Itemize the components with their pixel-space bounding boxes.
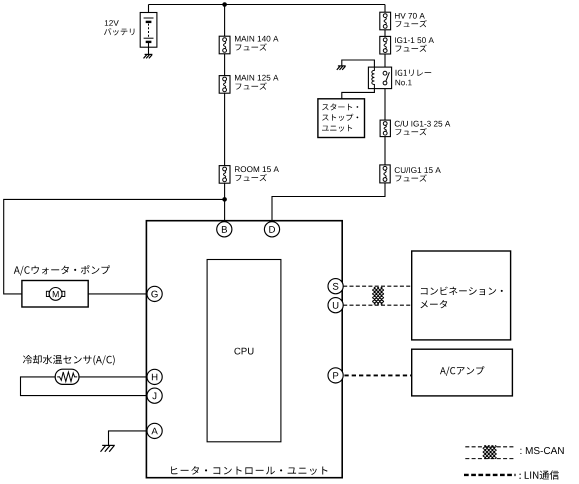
fuse C/U IG1-3 25 A [380, 120, 390, 137]
wire battery positive lead [148, 5, 150, 19]
fuse MAIN 125 A [219, 76, 230, 94]
connector J [147, 388, 162, 403]
label A/C amplifier [440, 366, 484, 376]
label CPU [234, 348, 253, 355]
fuse ROOM 15 A [219, 166, 230, 184]
wire MAIN 140 A fuse to MAIN 125 A fuse [224, 54, 226, 76]
legend label MS-CAN [520, 447, 563, 454]
battery 12V [140, 13, 157, 48]
wire MAIN 125 A fuse to ROOM fuse [224, 93, 226, 165]
wire top bus down to MAIN 140 A fuse [224, 5, 226, 37]
node top bus junction to MAIN fuses [222, 2, 227, 7]
wire pump to connector G [63, 293, 147, 295]
connector U [328, 298, 343, 313]
start-stop unit box [318, 99, 365, 138]
motor A/C water pump [22, 281, 88, 308]
wire C/U IG1-3 fuse to CU/IG1 fuse [384, 137, 386, 165]
CPU box [207, 260, 281, 442]
wire IG1-1 fuse to IG1 relay [384, 54, 386, 71]
label MAIN 125 A fuse [235, 75, 279, 81]
ground connector A wire [102, 444, 115, 446]
legend twisted pair symbol [483, 445, 486, 458]
dashed LIN line P to A/C amp [344, 374, 411, 376]
label start-stop unit [322, 104, 358, 111]
dashed MS-CAN line S to combination meter [343, 285, 412, 287]
fuse HV 70 A [380, 12, 391, 30]
legend MS-CAN dashed line upper [465, 446, 515, 448]
label combination meter [421, 287, 503, 296]
fuse CU/IG1 15 A [380, 165, 390, 183]
label CU/IG1 15 A fuse [395, 167, 441, 173]
label MAIN 140 A fuse [235, 36, 279, 42]
combination meter box [412, 251, 511, 340]
label HV 70 A fuse [395, 13, 425, 19]
thermistor coolant temperature sensor [55, 369, 79, 384]
connector G [147, 286, 162, 301]
connector A [147, 423, 162, 438]
wire ROOM fuse to connector B [224, 183, 226, 222]
fuse MAIN 140 A [219, 36, 230, 54]
label IG1-1 50 A fuse [395, 37, 434, 43]
wire CU/IG1 fuse to connector D [272, 183, 385, 222]
label coolant temperature sensor (A/C) [23, 355, 115, 365]
wire relay coil to start-stop unit [342, 89, 375, 99]
label C/U IG1-3 25 A fuse [395, 121, 451, 127]
connector H [147, 369, 162, 384]
node junction below ROOM fuse [222, 197, 227, 202]
wire thermistor loop to connector J [21, 377, 148, 396]
connector P [328, 368, 343, 383]
legend MS-CAN dashed line lower [465, 458, 515, 460]
legend LIN dashed line [464, 474, 516, 476]
A/C amplifier box [412, 349, 513, 396]
legend label LIN communication [519, 470, 559, 479]
ground below battery [145, 53, 153, 55]
wire top bus from battery to HV fuse column [149, 4, 386, 6]
wire junction to A/C water pump [4, 199, 225, 294]
connector D [264, 222, 279, 237]
ground relay coil [338, 65, 346, 67]
label A/C water pump [14, 265, 110, 275]
fuse IG1-1 50 A [380, 36, 391, 54]
wire thermistor to connector H [79, 376, 147, 378]
label heater control unit [171, 466, 327, 475]
label 12V battery [105, 20, 119, 26]
twisted pair MS-CAN symbol [373, 287, 376, 304]
heater control unit box [146, 221, 342, 478]
wire connector A to ground [109, 431, 148, 445]
connector B [217, 222, 232, 237]
wire top bus down to HV fuse [384, 5, 386, 13]
wire IG1 relay to C/U IG1-3 fuse [384, 85, 386, 120]
dashed MS-CAN line U to combination meter [343, 304, 412, 306]
wire relay coil to ground [342, 60, 375, 67]
wire HV fuse to IG1-1 fuse [384, 30, 386, 37]
label ROOM 15 A fuse [235, 166, 279, 172]
connector S [328, 279, 343, 294]
relay IG1 No.1 [368, 67, 391, 89]
label IG1 relay No.1 [396, 70, 432, 77]
